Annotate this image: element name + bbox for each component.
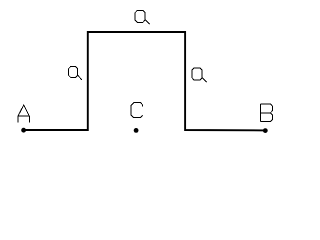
label a (right segment) [192, 68, 207, 83]
label B [261, 104, 273, 122]
label C [131, 103, 142, 118]
label A [18, 105, 29, 122]
label a (top segment) [135, 10, 150, 24]
node A (dot) [21, 128, 26, 133]
node B (dot) [263, 128, 268, 133]
wire path A-corner1-corner2-corner3-corner4-B [24, 32, 266, 130]
label a (left segment) [69, 66, 82, 79]
node C (dot) [134, 128, 139, 133]
